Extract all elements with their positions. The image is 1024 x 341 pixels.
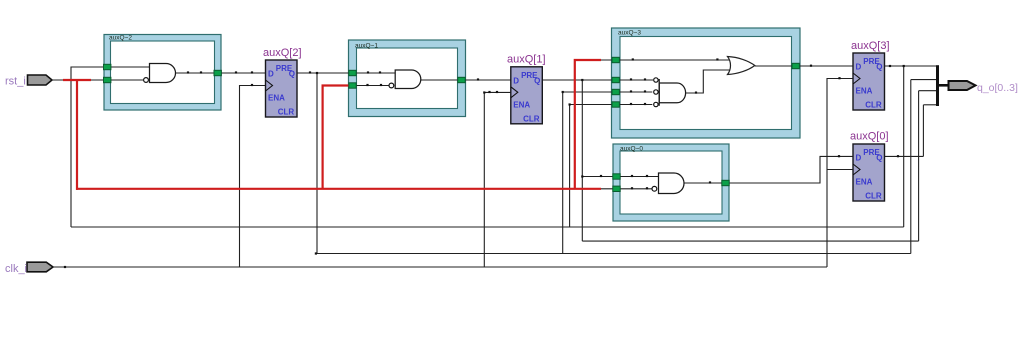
port marker auxQ~3 in D — [612, 102, 619, 107]
hierarchy box auxQ~3 — [612, 28, 801, 138]
svg-text:Q: Q — [289, 70, 295, 79]
red wire rst riser to auxQ~3 OR input A — [575, 60, 601, 189]
hierarchy box auxQ~0 — [613, 144, 729, 221]
svg-text:auxQ~1: auxQ~1 — [355, 43, 378, 50]
wire Q3 bottom rail — [71, 226, 904, 228]
svg-text:CLR: CLR — [865, 192, 882, 201]
red wire rst_i segment — [63, 79, 91, 81]
svg-text:clk_i: clk_i — [5, 263, 27, 275]
svg-text:rst_i: rst_i — [5, 76, 26, 88]
svg-text:Q: Q — [876, 154, 882, 163]
svg-text:D: D — [856, 154, 862, 163]
wire Q3 drop to bottom rail — [903, 66, 905, 227]
port marker auxQ~3 in C — [612, 89, 619, 94]
wire Q0 bus join — [923, 104, 937, 106]
wire D1: gate auxQ~1 output to auxQ[1].D — [421, 79, 511, 81]
svg-text:ENA: ENA — [513, 100, 530, 109]
wire NOR output to OR input B — [686, 70, 731, 93]
AND gate auxQ~1 (input B inverted) — [389, 70, 421, 89]
flip-flop auxQ[3] — [851, 40, 890, 110]
wire Q2: auxQ[2].Q to gate auxQ~1 input A — [297, 72, 395, 74]
wire clk branch to auxQ[0] clock — [827, 169, 853, 171]
port marker auxQ~1 out — [458, 77, 465, 82]
port marker auxQ~1 in B — [349, 83, 356, 88]
svg-text:ENA: ENA — [856, 87, 873, 96]
port marker auxQ~3 out — [792, 63, 799, 68]
wire Q0: auxQ[0].Q to bus riser — [885, 155, 924, 157]
svg-text:CLR: CLR — [865, 101, 882, 110]
hierarchy box auxQ~1 — [349, 40, 466, 117]
port marker auxQ~3 in A — [612, 57, 619, 62]
wire Q2 bus riser — [910, 80, 912, 254]
port marker auxQ~0 out — [722, 180, 729, 185]
svg-text:q_o[0..3]: q_o[0..3] — [977, 82, 1018, 94]
red wire rst bottom rail — [76, 188, 601, 190]
wire rst inside auxQ~3 to OR input A — [601, 59, 731, 61]
wire Q3: auxQ[3].Q to bus — [885, 65, 938, 67]
svg-text:auxQ~0: auxQ~0 — [620, 146, 643, 153]
wire Q1 bus join — [919, 90, 938, 92]
port marker auxQ~2 out — [214, 70, 221, 75]
wire rst_i to gate auxQ~2 input B — [52, 79, 143, 81]
wire Q1 drop — [581, 80, 583, 241]
hierarchy box auxQ~2 — [104, 35, 221, 111]
svg-text:ENA: ENA — [856, 178, 873, 187]
svg-text:CLR: CLR — [278, 108, 295, 117]
port marker auxQ~0 in B — [613, 186, 620, 191]
svg-text:auxQ[1]: auxQ[1] — [507, 54, 546, 66]
svg-text:Q: Q — [876, 63, 882, 72]
wire clk rail from clk_i pin — [53, 266, 827, 268]
svg-text:ENA: ENA — [268, 94, 285, 103]
flip-flop auxQ[2] — [263, 47, 302, 117]
wire Q1: auxQ[1].Q to NOR input A — [542, 79, 653, 81]
bus bar q_o — [936, 65, 939, 106]
svg-text:D: D — [513, 76, 519, 85]
output pin q_o[0..3] — [949, 81, 1018, 94]
wire Q1 branch to gate auxQ~0 input A — [582, 176, 620, 178]
wire rail to gate auxQ~0 input A inside box — [620, 176, 658, 178]
wire Q1 bottom rail — [582, 240, 918, 242]
wire Q0 bus riser — [922, 105, 924, 157]
bus stub to output pin — [938, 84, 950, 87]
svg-text:auxQ[0]: auxQ[0] — [850, 131, 889, 143]
wire D0: gate auxQ~0 output to auxQ[0].D — [684, 156, 853, 183]
port marker auxQ~1 in A — [349, 70, 356, 75]
wire Q2 bottom rail — [316, 253, 911, 255]
input pin rst_i — [5, 75, 52, 88]
OR gate in auxQ~3 — [728, 57, 755, 75]
flip-flop auxQ[0] — [850, 131, 889, 202]
port marker auxQ~2 in A — [104, 64, 111, 69]
svg-text:D: D — [856, 63, 862, 72]
port marker auxQ~0 in A — [613, 174, 620, 179]
AND gate auxQ~0 (input B inverted) — [652, 173, 684, 194]
wire clk riser to auxQ[3] clock — [827, 79, 853, 268]
flip-flop auxQ[1] — [507, 54, 546, 124]
wire Q3 rail riser to NOR input C — [570, 105, 653, 228]
red wire rst drop — [76, 79, 78, 190]
wire clk riser to auxQ[2] clock — [240, 86, 266, 268]
wire D2: gate auxQ~2 output to auxQ[2].D — [176, 72, 266, 74]
svg-text:CLR: CLR — [523, 114, 540, 123]
svg-text:auxQ[2]: auxQ[2] — [263, 47, 302, 59]
wire Q2 drop to bottom rail — [316, 73, 318, 254]
wire Q1 bus riser — [918, 91, 920, 241]
tick dots on wires — [64, 58, 905, 268]
input pin clk_i — [5, 262, 53, 275]
red wire rst riser to auxQ~1 input B — [323, 86, 349, 189]
svg-text:auxQ[3]: auxQ[3] — [851, 40, 890, 52]
wire clk riser to auxQ[1] clock — [484, 92, 511, 267]
wire auxQ~1 input B from red tap — [349, 85, 389, 87]
svg-text:D: D — [268, 70, 274, 79]
wire Q2 bus join — [911, 79, 938, 81]
wire Q2 riser to NOR input B — [563, 92, 653, 254]
svg-text:auxQ~3: auxQ~3 — [618, 30, 641, 37]
port marker auxQ~2 in B — [104, 77, 111, 82]
wire black stub under red rail to auxQ~0 input B — [595, 188, 652, 190]
svg-text:Q: Q — [534, 76, 540, 85]
wire D3: OR output to auxQ[3].D — [755, 65, 853, 67]
svg-text:auxQ~2: auxQ~2 — [109, 35, 132, 42]
3-input NOR gate in auxQ~3 — [654, 78, 686, 107]
wire Q3 feedback riser to auxQ~2 input A — [71, 67, 150, 227]
port marker auxQ~3 in B — [612, 77, 619, 82]
AND gate auxQ~2 (input B inverted) — [144, 64, 176, 83]
